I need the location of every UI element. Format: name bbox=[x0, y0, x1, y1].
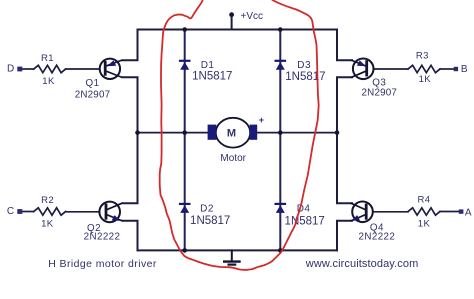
node A terminal bbox=[459, 209, 464, 213]
svg-text:1N5817: 1N5817 bbox=[192, 70, 232, 82]
transistor Q1 (PNP 2N2907) bbox=[100, 59, 122, 79]
svg-text:Q1: Q1 bbox=[85, 78, 99, 89]
red hand-drawn loop bbox=[160, 0, 319, 270]
node junction dots bbox=[135, 27, 339, 253]
diode D1 (1N5817) bbox=[180, 61, 189, 70]
svg-text:+: + bbox=[259, 115, 264, 125]
resistor R3 bbox=[367, 65, 453, 72]
transistor Q4 (NPN 2N2222) bbox=[351, 202, 373, 223]
node B terminal bbox=[454, 67, 458, 71]
svg-text:www.circuitstoday.com: www.circuitstoday.com bbox=[305, 258, 419, 270]
node D terminal bbox=[17, 67, 22, 72]
diode D3 (1N5817) bbox=[276, 61, 285, 70]
svg-text:H Bridge motor driver: H Bridge motor driver bbox=[48, 258, 157, 270]
transistor Q2 (NPN 2N2222) bbox=[99, 202, 121, 223]
transistor Q3 (PNP 2N2907) bbox=[352, 59, 374, 80]
resistor R1 bbox=[22, 65, 104, 72]
diode D4 (1N5817) bbox=[276, 204, 285, 213]
svg-text:D3: D3 bbox=[297, 60, 311, 71]
diode D2 (1N5817) bbox=[180, 204, 189, 213]
svg-text:M: M bbox=[227, 128, 236, 140]
wire right vertical middle (Q3 collector to Q4 collector) bbox=[337, 77, 352, 203]
wire left vertical upper (Q1 emitter to top rail) bbox=[123, 30, 138, 61]
svg-text:2N2907: 2N2907 bbox=[75, 90, 111, 101]
wire right vertical lower (Q4 emitter to bottom rail) bbox=[337, 221, 352, 251]
svg-text:A: A bbox=[465, 208, 472, 219]
wire left vertical lower (Q2 emitter to bottom rail) bbox=[123, 221, 138, 251]
svg-text:D: D bbox=[7, 64, 14, 75]
svg-text:1N5817: 1N5817 bbox=[285, 71, 325, 83]
svg-text:Motor: Motor bbox=[220, 153, 246, 164]
svg-text:2N2222: 2N2222 bbox=[84, 232, 121, 243]
resistor R2 bbox=[22, 208, 105, 215]
wire right vertical upper (Q3 emitter to top rail) bbox=[337, 30, 352, 61]
svg-text:1N5817: 1N5817 bbox=[285, 216, 325, 228]
svg-text:1N5817: 1N5817 bbox=[190, 215, 230, 227]
svg-text:1K: 1K bbox=[42, 76, 55, 87]
motor M bbox=[208, 115, 264, 164]
svg-text:B: B bbox=[461, 64, 468, 75]
ground bbox=[224, 250, 239, 264]
svg-text:D2: D2 bbox=[200, 204, 214, 215]
wire motor row bbox=[138, 132, 338, 134]
node +Vcc stub and dot bbox=[231, 15, 233, 30]
svg-text:R1: R1 bbox=[41, 53, 54, 64]
wire left vertical middle (Q1 collector to Q2 collector) bbox=[123, 77, 138, 203]
wire bottom rail bbox=[138, 249, 338, 251]
svg-text:1K: 1K bbox=[418, 218, 431, 229]
node C terminal bbox=[17, 209, 22, 214]
wire right diode column bbox=[279, 30, 281, 251]
svg-text:R2: R2 bbox=[41, 195, 54, 206]
svg-text:R3: R3 bbox=[416, 51, 429, 62]
wire top rail bbox=[138, 29, 338, 31]
svg-text:2N2907: 2N2907 bbox=[362, 87, 398, 98]
svg-text:+Vcc: +Vcc bbox=[241, 11, 264, 22]
svg-text:1K: 1K bbox=[41, 219, 54, 230]
svg-text:1K: 1K bbox=[419, 74, 432, 85]
svg-text:R4: R4 bbox=[418, 195, 431, 206]
wire left diode column bbox=[184, 30, 186, 251]
svg-text:2N2222: 2N2222 bbox=[359, 232, 396, 243]
svg-text:C: C bbox=[7, 206, 14, 217]
resistor R4 bbox=[367, 208, 459, 215]
